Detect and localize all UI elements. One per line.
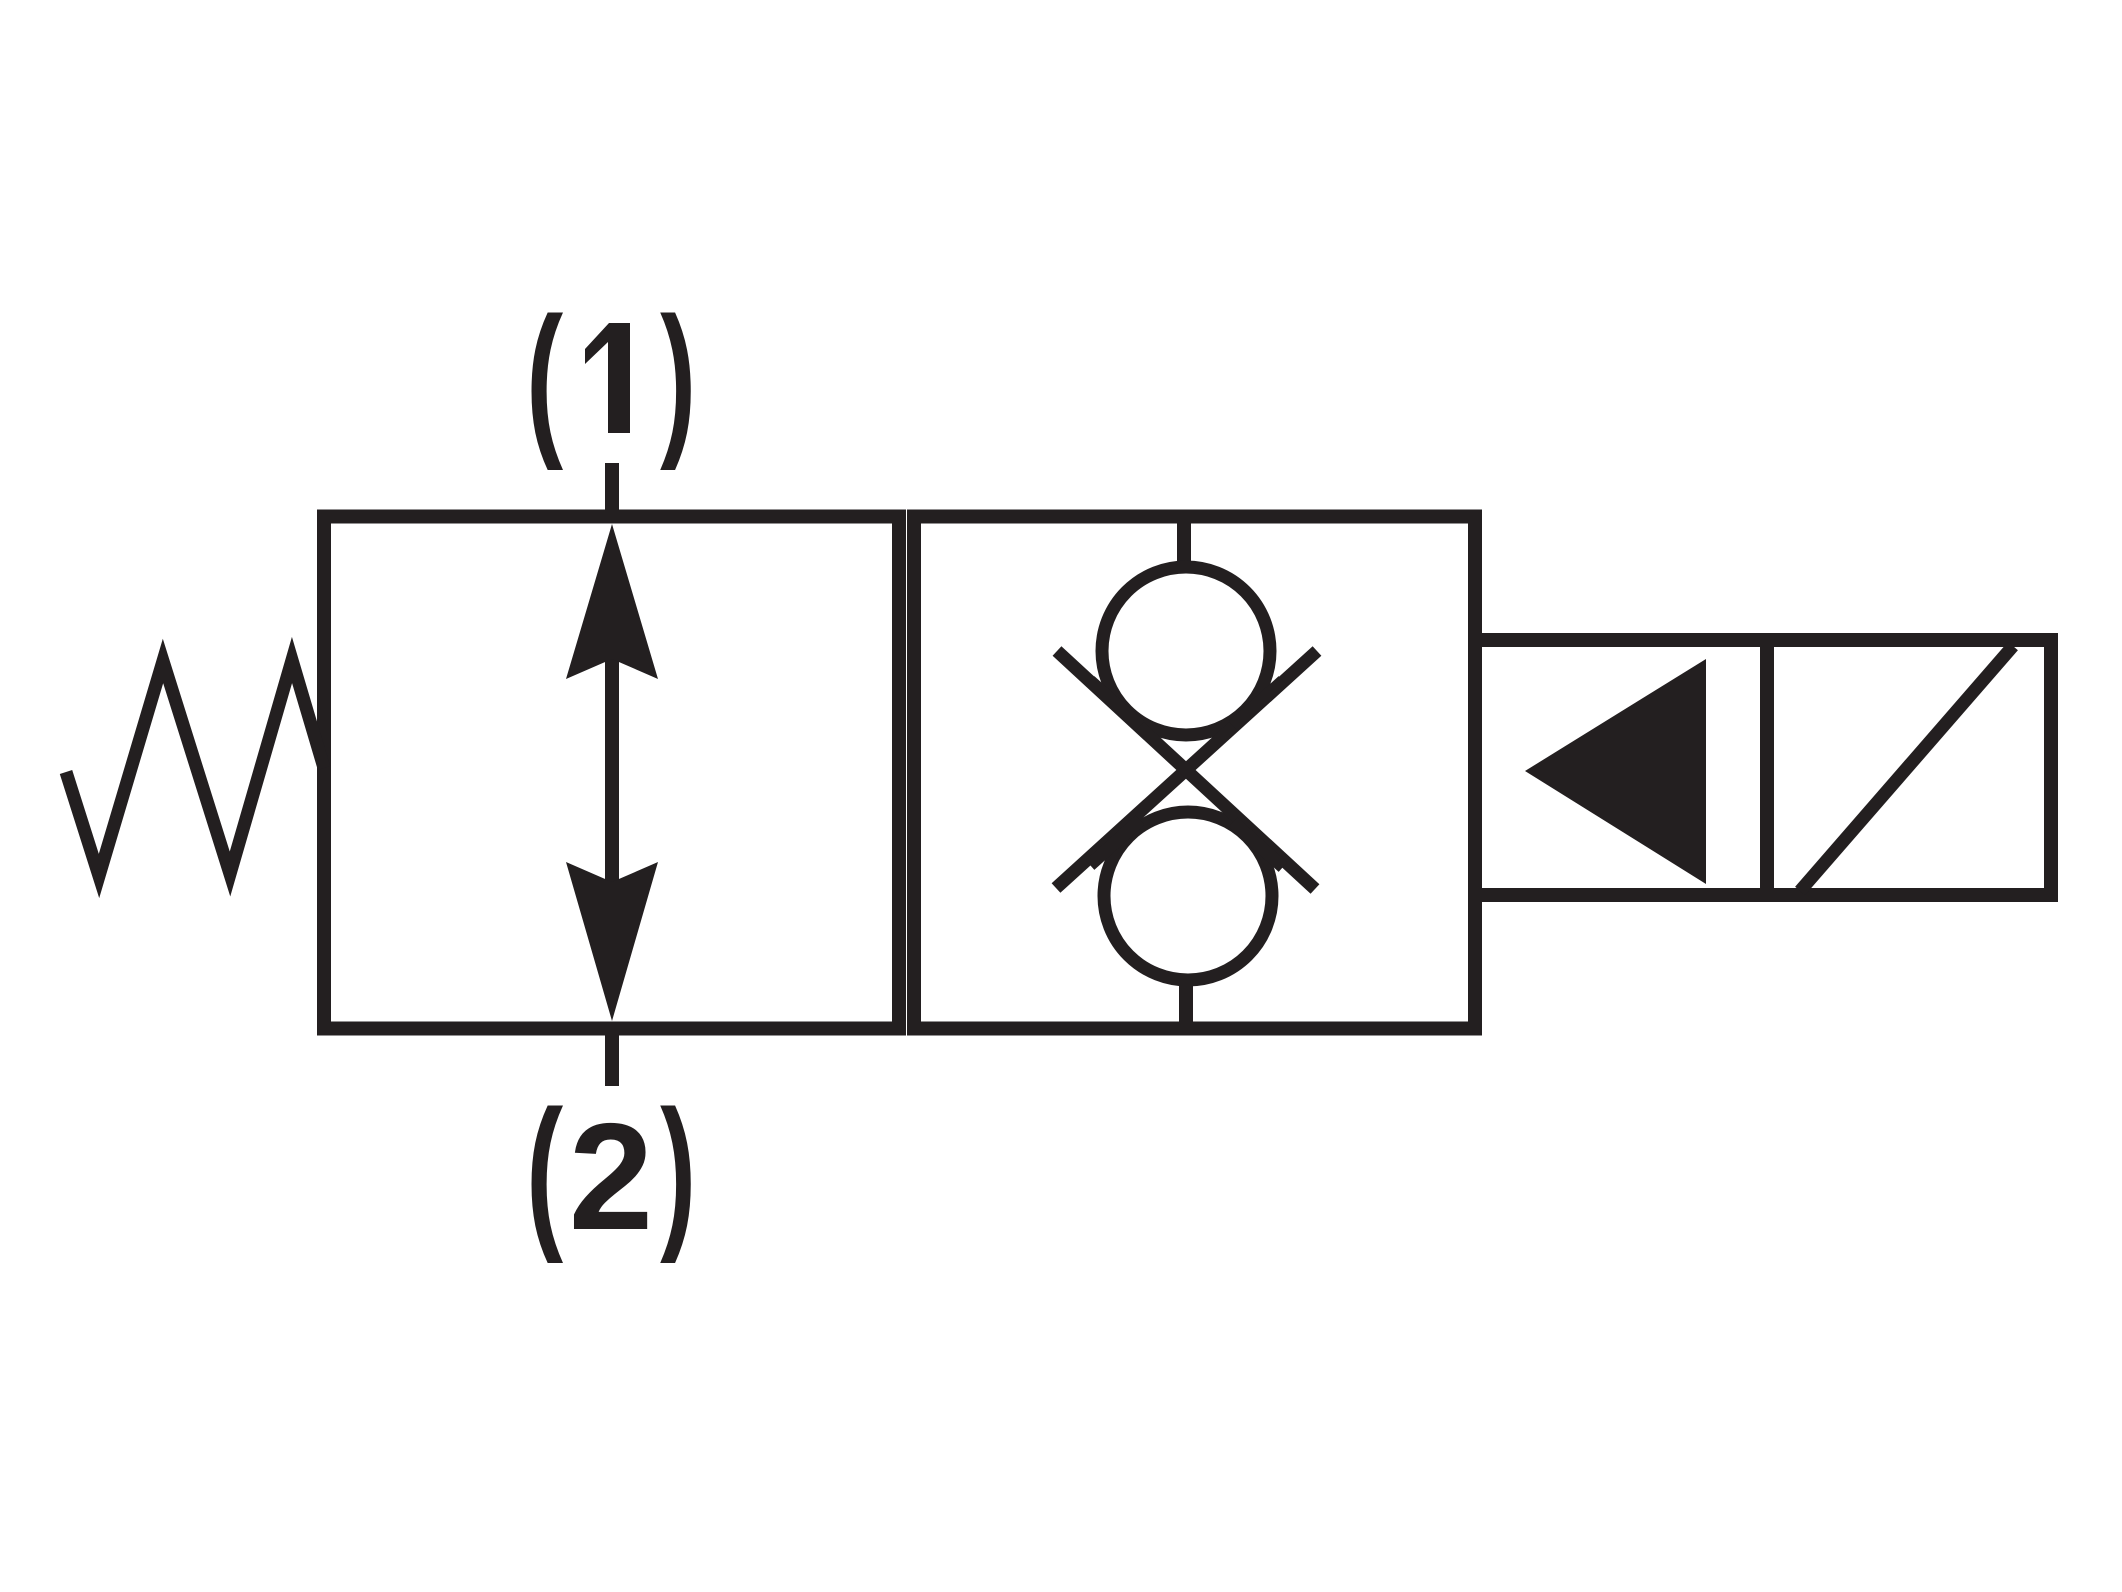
lower ball stub	[1179, 981, 1193, 1028]
port 1 label (1)	[526, 283, 696, 472]
check cluster: upper ball stub	[1177, 517, 1191, 566]
crossing diagonal 1 (lower-left to upper-right)	[1056, 651, 1317, 888]
lower ball seat barb left	[1090, 820, 1140, 865]
lower ball (circle)	[1104, 812, 1272, 980]
valve position box right (check-ball box)	[914, 517, 1475, 1029]
flow arrow shaft	[605, 655, 619, 885]
svg-text:2: 2	[569, 1092, 654, 1262]
solenoid coil diagonal	[1800, 646, 2013, 891]
crossing diagonal 2 (upper-left to lower-right)	[1057, 651, 1315, 889]
port 2 stub	[605, 1028, 619, 1086]
svg-text:): )	[660, 284, 696, 472]
svg-text:(: (	[526, 283, 563, 472]
port 1 stub	[605, 463, 619, 517]
valve position box left (flow path box)	[324, 517, 899, 1029]
upper ball seat barb right	[1233, 681, 1283, 726]
flow arrow head up	[566, 524, 658, 679]
solenoid actuator triangle (points left)	[1525, 659, 1706, 884]
upper ball (circle)	[1102, 567, 1270, 735]
flow arrow head down	[566, 862, 658, 1021]
spring (return spring, left)	[66, 660, 324, 876]
solenoid box outline	[1475, 640, 2051, 895]
port 2 label (2)	[526, 1076, 696, 1265]
upper ball seat barb left	[1090, 681, 1140, 726]
svg-text:): )	[660, 1077, 696, 1265]
solenoid box divider	[1760, 633, 1774, 902]
svg-text:(: (	[526, 1076, 563, 1265]
lower ball seat barb right	[1233, 822, 1283, 867]
